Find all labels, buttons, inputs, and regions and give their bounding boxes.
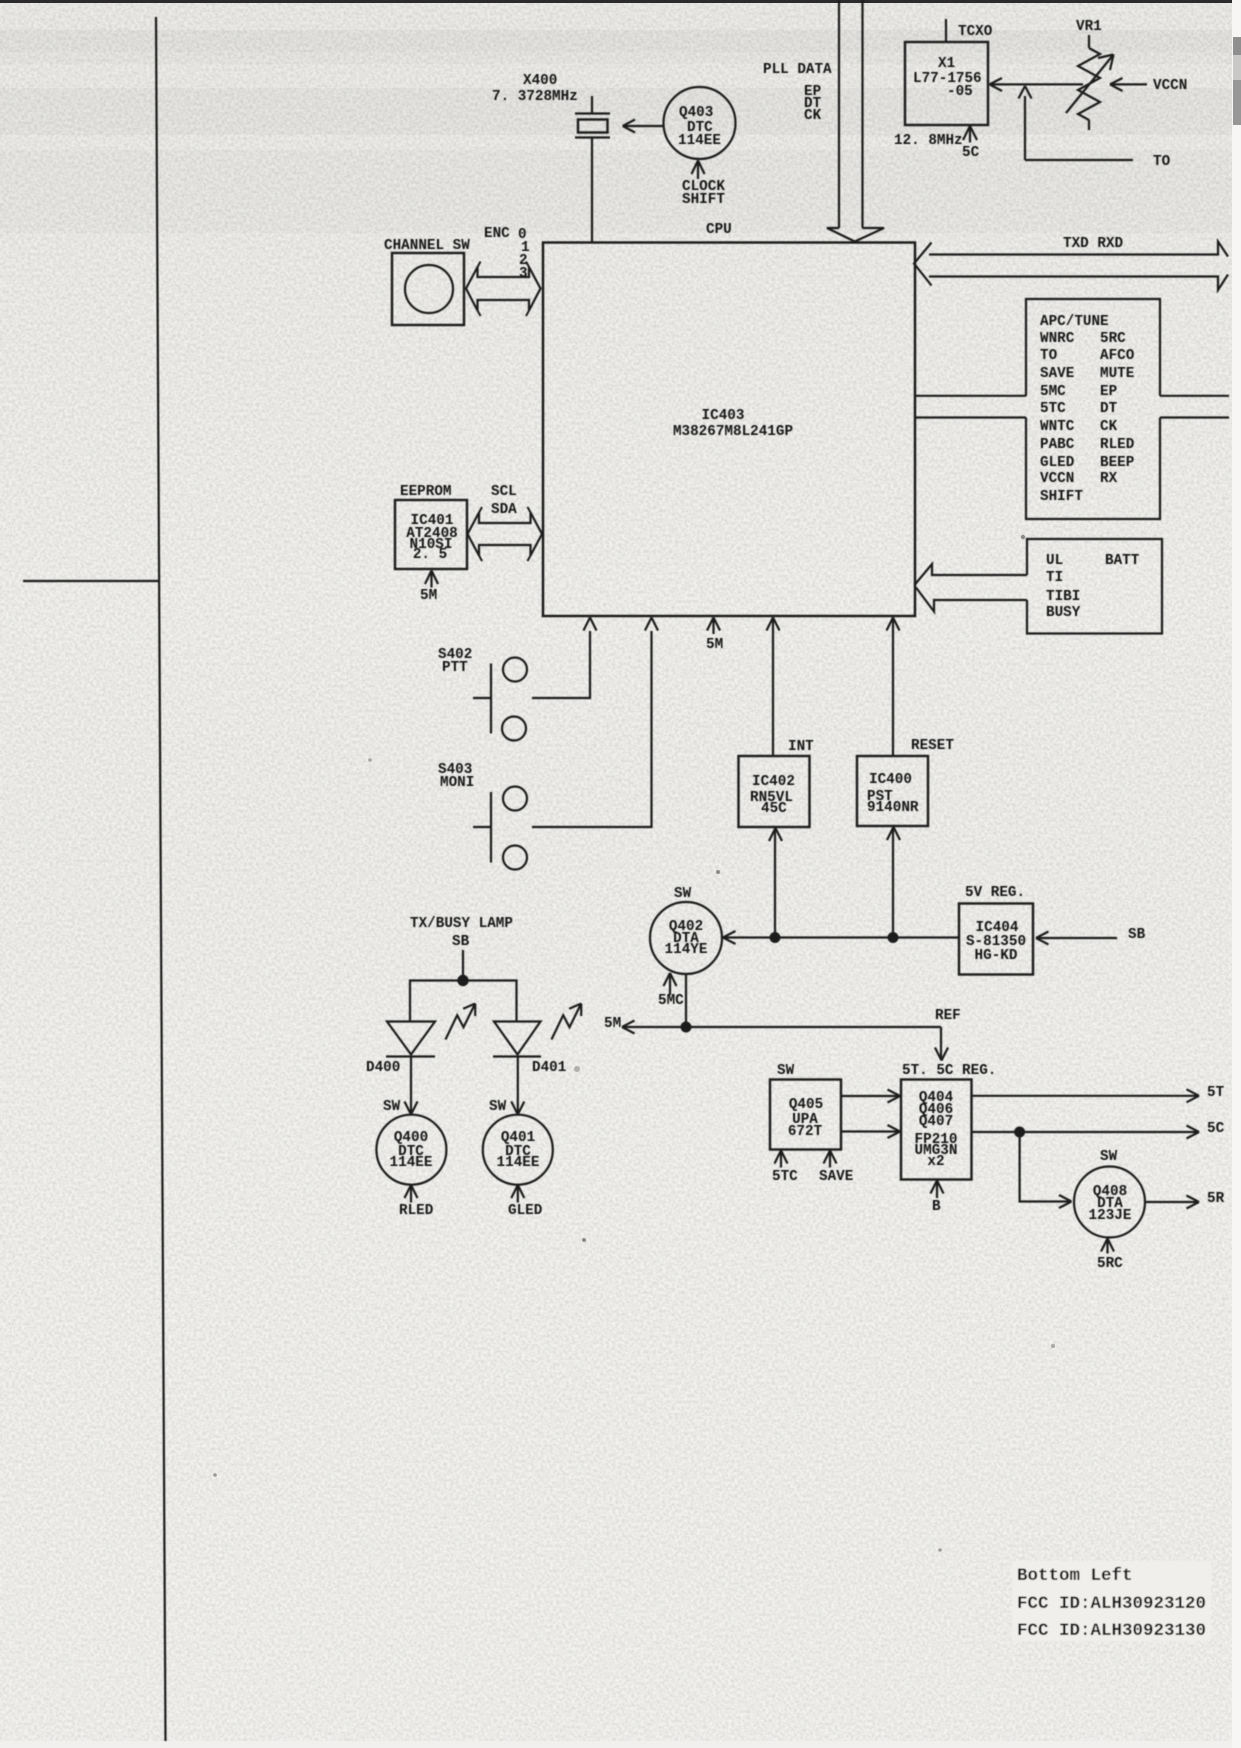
label TCXO bbox=[958, 24, 993, 40]
svg-text:B: B bbox=[932, 1199, 941, 1215]
arrow 5TC into Q405 bbox=[775, 1151, 788, 1168]
svg-text:VR1: VR1 bbox=[1076, 19, 1102, 35]
svg-text:5M: 5M bbox=[706, 637, 723, 653]
wire D400 to Q400 with down arrowhead bbox=[405, 1057, 418, 1115]
wire Q402 down to 5M line bbox=[685, 974, 687, 1027]
svg-text:ENC: ENC bbox=[484, 226, 510, 242]
svg-text:5MC: 5MC bbox=[1040, 384, 1066, 400]
svg-text:RLED: RLED bbox=[1100, 437, 1135, 453]
label SW Q408 bbox=[1100, 1149, 1118, 1165]
label EEPROM bbox=[400, 484, 451, 500]
wire 5C with arrowhead bbox=[972, 1126, 1200, 1139]
svg-text:CHANNEL SW: CHANNEL SW bbox=[384, 238, 470, 254]
svg-text:5M: 5M bbox=[604, 1016, 621, 1032]
label CPU bbox=[706, 222, 732, 238]
label B bbox=[932, 1199, 941, 1215]
svg-text:12. 8MHz: 12. 8MHz bbox=[894, 133, 963, 149]
label X400 value bbox=[492, 73, 578, 105]
svg-text:EP: EP bbox=[1100, 384, 1117, 400]
arrow GLED into Q401 bbox=[511, 1185, 524, 1203]
svg-text:5C: 5C bbox=[962, 145, 980, 161]
light arrow D400 bbox=[446, 1004, 476, 1040]
svg-text:UL: UL bbox=[1046, 553, 1063, 569]
label 12.8MHz bbox=[894, 133, 963, 149]
svg-text:SW: SW bbox=[383, 1099, 401, 1115]
svg-text:CK: CK bbox=[1100, 419, 1118, 435]
wire 5T with arrowhead bbox=[972, 1089, 1200, 1102]
wire crystal to CPU bbox=[591, 138, 593, 243]
label 5R bbox=[1207, 1191, 1225, 1207]
label 5TC bbox=[772, 1169, 798, 1185]
wire CPU to APC box lower bbox=[915, 416, 1026, 418]
wire Q405 to Q404 upper with arrowhead bbox=[841, 1090, 900, 1103]
apc/tune pin box upper part bbox=[1026, 299, 1160, 396]
label VR1 bbox=[1076, 19, 1102, 35]
svg-text:EEPROM: EEPROM bbox=[400, 484, 451, 500]
svg-text:SAVE: SAVE bbox=[819, 1169, 853, 1185]
svg-text:VCCN: VCCN bbox=[1040, 471, 1074, 487]
transistor Q402 bbox=[650, 902, 722, 974]
label D401 bbox=[532, 1060, 566, 1076]
svg-text:DT: DT bbox=[1100, 401, 1118, 417]
label REF bbox=[935, 1008, 961, 1024]
svg-text:FCC ID:ALH30923120: FCC ID:ALH30923120 bbox=[1017, 1594, 1206, 1614]
svg-text:CK: CK bbox=[804, 108, 822, 124]
label S402 PTT bbox=[438, 647, 472, 676]
svg-text:TO: TO bbox=[1040, 348, 1058, 364]
svg-text:IC400: IC400 bbox=[869, 772, 912, 788]
svg-text:BATT: BATT bbox=[1105, 553, 1140, 569]
label RESET bbox=[911, 738, 954, 754]
arrow 5C into X1 bbox=[963, 126, 977, 143]
svg-text:Bottom Left: Bottom Left bbox=[1017, 1566, 1133, 1586]
label 5C bbox=[962, 145, 980, 161]
wire CPU to APC box upper bbox=[915, 395, 1026, 397]
svg-text:45C: 45C bbox=[761, 801, 787, 817]
wire TCXO stub bbox=[945, 19, 947, 42]
svg-text:TO: TO bbox=[1153, 154, 1171, 170]
label SAVE bbox=[819, 1169, 853, 1185]
wire junction to IC402 with arrowhead bbox=[769, 828, 782, 938]
label CHANNEL SW bbox=[384, 238, 470, 254]
svg-text:CPU: CPU bbox=[706, 222, 732, 238]
switch Q405 bbox=[770, 1080, 841, 1150]
svg-text:D400: D400 bbox=[366, 1060, 400, 1076]
bus PLL DATA into CPU (hollow arrow) bbox=[827, 0, 884, 242]
svg-text:114EE: 114EE bbox=[390, 1155, 433, 1171]
label 5M bbox=[420, 588, 437, 604]
svg-text:SHIFT: SHIFT bbox=[1040, 489, 1083, 505]
transistor Q401 bbox=[483, 1115, 553, 1185]
transistor Q403 bbox=[664, 87, 736, 159]
svg-text:SB: SB bbox=[1128, 927, 1146, 943]
wire Q403 to crystal with arrowhead bbox=[623, 120, 664, 133]
led D400 bbox=[386, 1022, 435, 1057]
label SW Q400 bbox=[383, 1099, 401, 1115]
svg-text:SW: SW bbox=[1100, 1149, 1118, 1165]
led D401 bbox=[493, 1022, 541, 1057]
svg-text:PLL DATA: PLL DATA bbox=[763, 62, 832, 78]
bus TXD RXD top line bbox=[929, 242, 1228, 257]
svg-text:IC402: IC402 bbox=[752, 774, 795, 790]
label 5RC bbox=[1097, 1256, 1123, 1272]
wire D401 to Q401 with down arrowhead bbox=[511, 1057, 524, 1115]
svg-text:PTT: PTT bbox=[442, 660, 468, 676]
arrow into CPU bottom from S403 bbox=[645, 618, 658, 631]
label TXD RXD bbox=[1063, 236, 1123, 252]
svg-text:X1: X1 bbox=[938, 56, 955, 72]
battery pin box bbox=[1027, 539, 1162, 634]
svg-text:5TC: 5TC bbox=[772, 1169, 798, 1185]
svg-text:RX: RX bbox=[1100, 471, 1118, 487]
wire SB lamp down bbox=[462, 950, 464, 981]
label SW Q405 bbox=[777, 1063, 795, 1079]
crystal X400 bbox=[575, 96, 610, 138]
border line left bbox=[156, 17, 166, 1741]
junction dot 5M line bbox=[682, 1023, 691, 1032]
bus channel switch to CPU (double hollow arrow) bbox=[466, 267, 541, 311]
wire REF down to Q404 with arrowhead bbox=[935, 1027, 948, 1061]
svg-text:TCXO: TCXO bbox=[958, 24, 993, 40]
ic IC400 bbox=[857, 756, 928, 826]
svg-text:D401: D401 bbox=[532, 1060, 566, 1076]
svg-text:SW: SW bbox=[777, 1063, 795, 1079]
label TO bbox=[1153, 154, 1171, 170]
svg-text:BUSY: BUSY bbox=[1046, 605, 1081, 621]
wire S402 to CPU bbox=[532, 631, 590, 698]
svg-text:SHIFT: SHIFT bbox=[682, 192, 725, 208]
label D400 bbox=[366, 1060, 400, 1076]
svg-text:HG-KD: HG-KD bbox=[975, 948, 1018, 964]
label VCCN bbox=[1153, 78, 1187, 94]
svg-text:TIBI: TIBI bbox=[1046, 589, 1080, 605]
wire 5C junction to Q408 with arrowhead bbox=[1020, 1132, 1072, 1208]
label 5V REG. bbox=[965, 885, 1025, 901]
arrow TO junction up bbox=[1019, 86, 1032, 160]
arrow RLED into Q400 bbox=[405, 1185, 418, 1203]
svg-text:MONI: MONI bbox=[440, 775, 474, 791]
junction dot INT line bbox=[771, 933, 780, 942]
wire lamp rail bbox=[410, 981, 517, 1022]
label TX/BUSY LAMP bbox=[410, 916, 513, 932]
svg-text:5RC: 5RC bbox=[1100, 331, 1126, 347]
svg-text:SW: SW bbox=[674, 886, 692, 902]
label S403 MONI bbox=[438, 762, 474, 791]
svg-text:TX/BUSY LAMP: TX/BUSY LAMP bbox=[410, 916, 513, 932]
wire APC box to right edge upper bbox=[1160, 395, 1229, 397]
arrow 5M into EEPROM bbox=[425, 571, 438, 588]
svg-text:SDA: SDA bbox=[491, 502, 517, 518]
arrow 5MC into Q402 bbox=[664, 973, 677, 995]
potentiometer VR1 bbox=[1066, 35, 1114, 130]
svg-text:INT: INT bbox=[788, 739, 814, 755]
svg-text:GLED: GLED bbox=[1040, 455, 1075, 471]
svg-text:3: 3 bbox=[519, 266, 528, 282]
svg-text:PABC: PABC bbox=[1040, 437, 1075, 453]
svg-text:7. 3728MHz: 7. 3728MHz bbox=[492, 89, 578, 105]
svg-text:5TC: 5TC bbox=[1040, 401, 1066, 417]
label SB right bbox=[1128, 927, 1146, 943]
wire APC box to right edge lower bbox=[1160, 416, 1229, 418]
junction dot RESET line bbox=[889, 933, 898, 942]
wire SB to IC404 with arrowhead bbox=[1036, 932, 1117, 945]
svg-text:114EE: 114EE bbox=[497, 1155, 540, 1171]
svg-text:2. 5: 2. 5 bbox=[413, 547, 447, 563]
svg-text:5RC: 5RC bbox=[1097, 1256, 1123, 1272]
arrow B into Q404 bbox=[931, 1181, 944, 1199]
arrow 5RC into Q408 bbox=[1101, 1239, 1114, 1254]
svg-text:123JE: 123JE bbox=[1089, 1208, 1132, 1224]
arrow into CPU bottom from S402 bbox=[584, 618, 597, 631]
svg-text:Q403: Q403 bbox=[679, 105, 713, 121]
labels APC/TUNE pins bbox=[1040, 314, 1135, 505]
oscillator X1 bbox=[905, 42, 988, 125]
bus TXD RXD bottom line bbox=[929, 275, 1228, 291]
wire 5R with arrowhead bbox=[1145, 1196, 1199, 1209]
svg-text:5T: 5T bbox=[1207, 1085, 1225, 1101]
junction dot 5C line bbox=[1015, 1128, 1024, 1137]
light arrow D401 bbox=[552, 1004, 582, 1040]
svg-text:SW: SW bbox=[489, 1099, 507, 1115]
wire INT to CPU with arrowhead bbox=[767, 618, 780, 757]
wire TIBI to CPU with half arrowhead bbox=[916, 588, 1027, 612]
svg-text:TXD RXD: TXD RXD bbox=[1063, 236, 1123, 252]
label 5M left bbox=[604, 1016, 621, 1032]
label SB lamp bbox=[452, 934, 470, 950]
bus EEPROM to CPU (double hollow arrow) bbox=[468, 513, 543, 556]
svg-text:114YE: 114YE bbox=[665, 942, 708, 958]
wire 5M line with left arrowhead bbox=[622, 1021, 941, 1034]
wire TO bbox=[1025, 159, 1133, 161]
svg-text:5T. 5C REG.: 5T. 5C REG. bbox=[902, 1063, 996, 1079]
eeprom IC401 bbox=[395, 500, 467, 569]
switch S402 bbox=[473, 658, 527, 741]
svg-text:GLED: GLED bbox=[508, 1203, 543, 1219]
svg-text:M38267M8L241GP: M38267M8L241GP bbox=[673, 424, 793, 440]
svg-text:5V REG.: 5V REG. bbox=[965, 885, 1025, 901]
svg-text:RLED: RLED bbox=[399, 1203, 434, 1219]
wire IC404 to Q402 with arrowhead bbox=[723, 931, 959, 944]
svg-text:MUTE: MUTE bbox=[1100, 366, 1134, 382]
wire UL to CPU with half arrowhead bbox=[915, 564, 1028, 585]
transistor Q408 bbox=[1074, 1167, 1145, 1238]
svg-text:REF: REF bbox=[935, 1008, 961, 1024]
bus TXD RXD arrowhead into CPU bbox=[914, 243, 932, 286]
svg-text:X400: X400 bbox=[523, 73, 557, 89]
svg-text:VCCN: VCCN bbox=[1153, 78, 1187, 94]
label 5T bbox=[1207, 1085, 1225, 1101]
svg-text:APC/TUNE: APC/TUNE bbox=[1040, 314, 1109, 330]
svg-text:672T: 672T bbox=[788, 1124, 823, 1140]
switch S403 bbox=[473, 787, 527, 870]
svg-text:SCL: SCL bbox=[491, 484, 517, 500]
wire RESET to CPU with arrowhead bbox=[887, 618, 900, 757]
label RLED bbox=[399, 1203, 434, 1219]
svg-text:IC403: IC403 bbox=[702, 408, 745, 424]
svg-text:WNTC: WNTC bbox=[1040, 419, 1075, 435]
label 5T.5C REG. bbox=[902, 1063, 996, 1079]
svg-text:x2: x2 bbox=[927, 1154, 944, 1170]
transistor Q400 bbox=[376, 1115, 446, 1185]
regulator IC404 bbox=[959, 904, 1033, 975]
ic IC402 bbox=[739, 756, 810, 827]
wire Q405 to Q404 lower with arrowhead bbox=[841, 1125, 900, 1138]
label CLOCK SHIFT bbox=[682, 179, 725, 208]
label ENC 0 1 2 3 bbox=[484, 226, 530, 282]
label PLL DATA bbox=[763, 62, 832, 124]
channel switch S bbox=[392, 253, 464, 325]
junction dot lamp bbox=[458, 976, 467, 985]
arrow SAVE into Q405 bbox=[824, 1151, 837, 1168]
apc/tune pin box lower part bbox=[1026, 418, 1160, 520]
svg-text:5C: 5C bbox=[1207, 1121, 1225, 1137]
border line left horizontal bbox=[23, 580, 160, 582]
wire S403 to CPU bbox=[532, 631, 652, 827]
label GLED bbox=[508, 1203, 543, 1219]
svg-text:SB: SB bbox=[452, 934, 470, 950]
svg-text:RESET: RESET bbox=[911, 738, 954, 754]
svg-text:5R: 5R bbox=[1207, 1191, 1225, 1207]
label 5C right bbox=[1207, 1121, 1225, 1137]
svg-text:Q407: Q407 bbox=[919, 1114, 953, 1130]
svg-text:5MC: 5MC bbox=[658, 993, 684, 1009]
svg-text:9140NR: 9140NR bbox=[867, 800, 919, 816]
label 5MC bbox=[658, 993, 684, 1009]
label SW Q401 bbox=[489, 1099, 507, 1115]
svg-text:114EE: 114EE bbox=[678, 133, 721, 149]
wire VCCN with arrowhead bbox=[1110, 78, 1147, 91]
svg-text:FCC ID:ALH30923130: FCC ID:ALH30923130 bbox=[1017, 1621, 1206, 1641]
label INT bbox=[788, 739, 814, 755]
svg-text:Q405: Q405 bbox=[789, 1097, 823, 1113]
label SCL SDA bbox=[491, 484, 517, 518]
fcc label block bbox=[1012, 1561, 1211, 1641]
svg-text:TI: TI bbox=[1046, 570, 1063, 586]
svg-text:-05: -05 bbox=[947, 84, 973, 100]
svg-text:SAVE: SAVE bbox=[1040, 366, 1074, 382]
wire VR1 wiper to X1 with arrowhead bbox=[990, 78, 1084, 91]
svg-text:AFCO: AFCO bbox=[1100, 348, 1135, 364]
arrow 5M stub into CPU bottom bbox=[707, 618, 720, 635]
svg-text:5M: 5M bbox=[420, 588, 437, 604]
arrow CLOCK SHIFT into Q403 bbox=[692, 161, 705, 180]
svg-text:WNRC: WNRC bbox=[1040, 331, 1075, 347]
regulator Q404 Q406 Q407 bbox=[901, 1080, 972, 1180]
label 5M under CPU bbox=[706, 637, 723, 653]
cpu IC403 bbox=[543, 243, 915, 617]
svg-text:BEEP: BEEP bbox=[1100, 455, 1134, 471]
label SW Q402 bbox=[674, 886, 692, 902]
wire junction to IC400 with arrowhead bbox=[887, 827, 900, 938]
labels battery pins bbox=[1046, 553, 1140, 621]
